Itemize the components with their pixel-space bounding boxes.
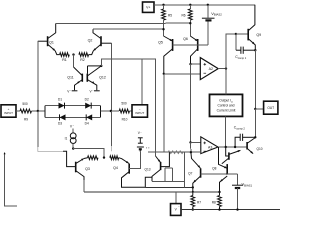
node VBIAS1 rail <box>236 208 238 210</box>
svg-text:Q11: Q11 <box>67 76 74 80</box>
node R5 Q2-collector wire <box>162 28 164 30</box>
svg-text:R1: R1 <box>62 58 67 62</box>
node Q8 emitter/R8 <box>218 191 220 193</box>
node A3 plus <box>189 141 191 143</box>
wire Q8 emitter down <box>220 176 228 192</box>
svg-text:R2: R2 <box>80 58 85 62</box>
diode D1 <box>59 103 65 109</box>
wire Q3 base loop <box>63 151 76 166</box>
wire Q7 base to Q8 bar <box>201 173 228 175</box>
wire Q12 collector loop right and down to Q13 <box>101 59 155 156</box>
svg-text:R6: R6 <box>181 13 185 17</box>
capacitor C_comp2 <box>235 137 240 147</box>
wire Q2 base to -input node <box>111 43 113 111</box>
node A2 minus <box>163 73 165 75</box>
diode D4 <box>86 114 92 120</box>
resistor R8 <box>218 196 222 207</box>
wire V- to I1 <box>72 128 74 133</box>
svg-text:Q5: Q5 <box>158 41 163 45</box>
wire bottom-left L <box>5 153 17 206</box>
svg-text:Current Limit: Current Limit <box>217 109 236 113</box>
wire Q1 collector up <box>48 24 56 39</box>
resistor R5 <box>162 9 166 20</box>
wire Q7 emitter down <box>193 176 201 192</box>
resistor R2 <box>79 53 89 57</box>
node A3 out / C_comp2 <box>234 146 236 148</box>
resistor R9 <box>20 109 32 113</box>
wire rail to R6 <box>189 5 191 9</box>
transistor Q6 <box>190 36 197 41</box>
node C_comp2 / Q10 collector <box>254 136 256 138</box>
wire Q2 collector up <box>93 29 101 38</box>
wire arrow up <box>4 152 6 154</box>
node -input <box>110 110 112 112</box>
svg-text:R8: R8 <box>212 200 216 204</box>
wire Q5 emitter down <box>164 49 173 74</box>
node A2 plus <box>189 63 191 65</box>
wire to OUT box <box>255 108 263 110</box>
wire A3 apex down to Q8 <box>219 147 228 168</box>
svg-text:INPUT: INPUT <box>135 111 144 115</box>
wire small loop left <box>164 168 166 182</box>
node rail VBIAS2 <box>207 4 209 6</box>
wire +input node down <box>37 111 39 147</box>
node rail R5 <box>162 4 164 6</box>
wire A2 out up to Q9 base <box>226 34 236 69</box>
battery VBIAS1 <box>232 184 243 186</box>
resistor R6 <box>188 9 192 20</box>
transistor Q11 <box>81 74 83 82</box>
wire down to -INPUT box top <box>141 59 143 104</box>
wire Q13 base up to lower net <box>161 152 170 166</box>
transistor Q12 <box>86 74 88 82</box>
resistor R10 <box>119 109 129 113</box>
node R3/R4 center <box>103 156 105 158</box>
wire mid-bottom bus <box>84 191 220 193</box>
wire Q13 emitter down <box>152 169 161 181</box>
svg-text:R10: R10 <box>122 118 128 122</box>
node OUT <box>254 108 256 110</box>
box + INPUT <box>1 105 16 117</box>
wire to A2 - <box>164 73 201 75</box>
wire +INPUT to R9 <box>16 110 20 112</box>
svg-text:Control and: Control and <box>217 104 234 108</box>
wire V+ rail <box>154 4 255 6</box>
transistor Q4 <box>128 164 130 174</box>
svg-text:Q10: Q10 <box>256 147 262 151</box>
resistor R7 <box>191 196 195 207</box>
node A3 out / box feed <box>225 146 227 148</box>
transistor Q13 <box>156 156 161 162</box>
svg-text:INPUT: INPUT <box>4 111 13 115</box>
wire Q1 collector to R6 node <box>56 22 191 24</box>
svg-text:R9: R9 <box>24 118 28 122</box>
wire Q5 Q6 bases to VBIAS2 <box>173 44 208 46</box>
svg-text:D2: D2 <box>85 97 89 101</box>
wire rail to R5 <box>163 5 165 9</box>
wire emitter bus <box>152 180 185 182</box>
V- terminal under Q11 <box>72 90 78 92</box>
wire faint to Q3 base <box>38 151 63 153</box>
transistor Q9 <box>247 29 249 41</box>
svg-text:+: + <box>8 107 10 111</box>
wire diode bottom branch <box>45 116 101 118</box>
svg-text:Q2: Q2 <box>88 38 93 42</box>
transistor Q5 <box>164 36 173 41</box>
svg-text:Q4: Q4 <box>113 166 118 170</box>
svg-text:OUT: OUT <box>267 106 274 110</box>
node Q7 emitter/R7 <box>192 191 194 193</box>
svg-text:Q9: Q9 <box>256 33 261 37</box>
wire Q2 collector to R5 node <box>93 28 164 30</box>
op-amp A2 <box>200 58 218 80</box>
svg-text:Q13: Q13 <box>144 167 150 171</box>
node A2 output <box>225 67 227 69</box>
wire down to lower net <box>190 142 192 152</box>
svg-text:R5: R5 <box>168 13 172 17</box>
wire right loop vertical <box>184 152 186 181</box>
node Q7 emitter/loop bus <box>192 186 194 188</box>
svg-text:D3: D3 <box>58 122 62 126</box>
wire A3 output to Q10 base <box>218 146 247 148</box>
wire to A3 + <box>191 141 201 143</box>
node R6 Q1-collector wire <box>189 22 191 24</box>
node lower net / Q6 line <box>190 151 192 153</box>
wire small loop right <box>172 168 174 182</box>
wire Q9 collector to rail <box>248 5 255 31</box>
wire Q1 base to +input node <box>37 41 39 111</box>
svg-text:D4: D4 <box>85 122 89 126</box>
V- terminal under Q12 <box>94 90 100 92</box>
wire R5 down <box>163 20 165 36</box>
svg-text:Q7: Q7 <box>188 172 192 176</box>
svg-text:V+: V+ <box>146 5 150 9</box>
svg-text:500: 500 <box>121 101 127 105</box>
wire bus to V- box <box>175 192 177 204</box>
wire Q8 base to VBIAS1 <box>227 173 237 175</box>
battery VBIAS2 <box>202 17 215 19</box>
wire VBIAS1 top <box>237 174 239 185</box>
node Q12 collector <box>100 65 102 67</box>
wire R9 to diode split <box>32 110 46 112</box>
wire R6 down <box>189 20 191 36</box>
wire lower net A3 minus row <box>148 151 201 153</box>
wire loop vertical link <box>184 181 186 187</box>
node Q9 base / C_comp1 <box>235 33 237 35</box>
wire diode top branch <box>45 105 101 107</box>
resistor R1 <box>60 53 70 57</box>
wire VBIAS2 to rail <box>207 5 209 18</box>
wire Q5 emitter line down to lower net <box>163 74 165 152</box>
svg-text:D1: D1 <box>58 97 62 101</box>
wire up to VBIAS2 <box>207 20 209 45</box>
box V+ <box>143 2 155 12</box>
transistor Q10 <box>246 142 248 150</box>
transistor Q1 <box>47 36 49 46</box>
node R1/R2 center <box>72 53 74 55</box>
resistor R3 <box>88 156 99 160</box>
wire VBIAS1 to rail <box>237 188 239 210</box>
wire diodes to R10 <box>101 110 120 112</box>
wire bottom rail V- <box>181 209 280 211</box>
transistor Q2 <box>100 36 102 46</box>
svg-text:Q12: Q12 <box>99 76 106 80</box>
wire small loop top <box>165 167 173 169</box>
node Q9 emitter <box>254 49 256 51</box>
svg-text:500: 500 <box>22 102 28 106</box>
transistor Q3 <box>75 162 77 173</box>
node I1 out <box>72 147 74 149</box>
svg-text:Q8: Q8 <box>212 167 216 171</box>
svg-text:Q6: Q6 <box>183 37 188 41</box>
wire Q6 emitter down <box>191 49 198 64</box>
node R8 rail <box>218 208 220 210</box>
node R7 rail <box>192 208 194 210</box>
wire Q4 base up to bias cell <box>129 152 140 169</box>
box - INPUT <box>132 105 148 117</box>
resistor lower net <box>168 151 183 154</box>
wire A2 output <box>218 68 226 70</box>
svg-text:−: − <box>139 107 141 111</box>
diode network split bars <box>44 106 46 118</box>
node +input <box>37 110 39 112</box>
svg-text:A2: A2 <box>209 67 213 71</box>
svg-text:Q1: Q1 <box>49 40 54 44</box>
wire to A2 + <box>191 63 201 65</box>
wire lower loop bus <box>145 186 193 188</box>
wire I1 down <box>72 144 74 149</box>
wire -input node down <box>111 111 113 146</box>
wire Q7 collector <box>191 152 201 168</box>
svg-text:I1: I1 <box>65 137 68 141</box>
svg-text:Q3: Q3 <box>85 167 90 171</box>
box V- <box>171 204 182 216</box>
wire R4 to Q4 emitter <box>119 158 130 164</box>
wire to Q9 base <box>236 33 248 35</box>
wire Q3 collector down <box>76 171 84 192</box>
transistor Q14 <box>226 147 229 156</box>
wire A2 out down to control box <box>225 69 227 95</box>
transistor Q8 <box>226 164 228 175</box>
wire R1R2 node down to Q11 collector <box>73 55 75 67</box>
wire R10 to -INPUT box <box>130 110 133 112</box>
svg-text:R7: R7 <box>197 200 201 204</box>
wire C_comp1 left <box>235 34 237 50</box>
wire Q9 emitter down to OUT <box>254 50 256 109</box>
wire stub <box>83 180 85 192</box>
wire OUT node down to C_comp2 node <box>254 109 256 137</box>
wire I1 node to R3/R4 center <box>73 149 104 158</box>
resistor R4 <box>110 156 119 160</box>
wire Q6 emitter line down <box>190 64 192 142</box>
wire Q4 collector loop <box>122 172 152 188</box>
box OUT <box>264 101 278 114</box>
box Output IQ Control and Current Limit <box>210 94 243 116</box>
node rail R6 <box>189 4 191 6</box>
current source I1 <box>70 133 76 139</box>
diode D2 <box>85 103 91 109</box>
diode D3 <box>60 114 66 120</box>
op-amp A3 <box>201 137 218 154</box>
wire control box down to A3 out <box>225 116 227 147</box>
svg-text:A3: A3 <box>208 146 212 150</box>
